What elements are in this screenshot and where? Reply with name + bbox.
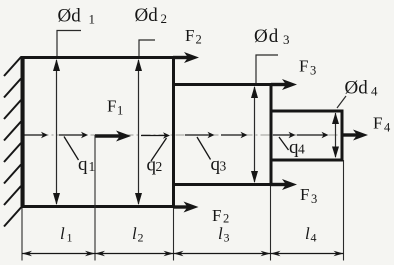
- svg-text:q: q: [78, 154, 88, 175]
- extension line at wall: [21, 208, 23, 261]
- distributed load q2: [141, 132, 170, 161]
- svg-text:l: l: [305, 224, 310, 243]
- svg-text:F: F: [185, 26, 194, 45]
- svg-text:3: 3: [224, 231, 230, 245]
- svg-text:1: 1: [89, 159, 96, 174]
- dimension l3: [174, 224, 271, 256]
- dimension l2: [95, 224, 174, 256]
- svg-text:2: 2: [196, 33, 202, 47]
- svg-text:4: 4: [311, 231, 317, 245]
- svg-text:4: 4: [384, 121, 391, 135]
- svg-text:2: 2: [156, 159, 163, 174]
- svg-text:l: l: [218, 224, 223, 243]
- wall: [4, 56, 23, 227]
- svg-text:Ød: Ød: [58, 6, 82, 27]
- svg-text:3: 3: [311, 192, 317, 206]
- svg-text:F: F: [107, 97, 116, 116]
- svg-text:3: 3: [283, 32, 290, 47]
- svg-text:2: 2: [223, 212, 229, 226]
- force F3 bottom: [271, 179, 317, 206]
- svg-text:F: F: [299, 57, 308, 76]
- svg-text:l: l: [132, 224, 137, 243]
- force F4: [343, 114, 391, 141]
- svg-text:1: 1: [67, 231, 73, 245]
- svg-text:Ød: Ød: [254, 26, 279, 47]
- diameter dim d2: [135, 5, 168, 205]
- svg-text:2: 2: [138, 231, 144, 245]
- bar section 1-2 outline: [22, 58, 174, 207]
- extension line x=270.5: [270, 186, 272, 261]
- svg-text:Ød: Ød: [345, 78, 369, 99]
- dimension l4: [271, 224, 344, 256]
- force F1: [95, 97, 131, 142]
- distributed load q1: [24, 132, 88, 160]
- extension line x=173.5: [173, 208, 175, 261]
- svg-text:F: F: [373, 114, 382, 133]
- svg-text:1: 1: [117, 104, 123, 118]
- svg-text:l: l: [60, 224, 65, 243]
- force F3 top: [271, 57, 316, 91]
- svg-text:F: F: [300, 185, 309, 204]
- distributed load q4: [273, 132, 329, 150]
- force F2 bottom: [173, 202, 229, 226]
- bar section 3 outline: [174, 85, 272, 185]
- svg-text:3: 3: [220, 159, 227, 174]
- svg-text:2: 2: [161, 11, 168, 26]
- extension line x=94: [94, 135, 96, 261]
- svg-text:3: 3: [310, 64, 316, 78]
- bar section 4 outline: [271, 111, 342, 160]
- distributed load q3: [185, 132, 248, 160]
- centerline (axis): [23, 134, 343, 136]
- svg-text:4: 4: [371, 84, 378, 99]
- svg-text:Ød: Ød: [135, 5, 159, 26]
- svg-text:4: 4: [298, 142, 305, 157]
- diameter dim d3: [251, 26, 290, 183]
- svg-text:F: F: [212, 206, 221, 225]
- extension line x=343.5: [343, 160, 345, 261]
- diameter dim d1: [53, 6, 95, 206]
- svg-text:1: 1: [89, 12, 96, 27]
- diameter dim d4: [332, 78, 378, 159]
- dimension l1: [22, 224, 95, 256]
- force F2 top: [173, 26, 202, 63]
